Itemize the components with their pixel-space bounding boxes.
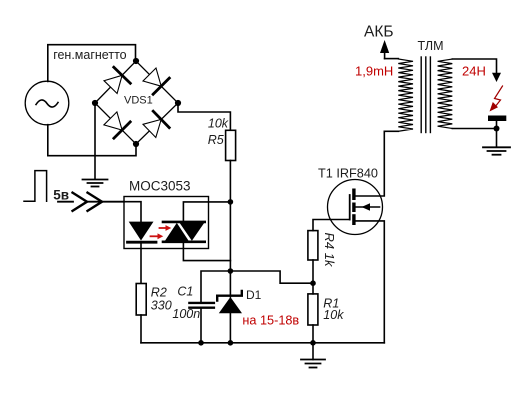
node R4/R1 xyxy=(310,280,316,286)
node C1/D1 top xyxy=(228,268,234,274)
bridge diode D_bl xyxy=(104,112,122,130)
svg-text:MOC3053: MOC3053 xyxy=(129,179,191,194)
wire bridge left node to ground xyxy=(94,103,96,179)
svg-text:АКБ: АКБ xyxy=(364,23,394,40)
svg-text:VDS1: VDS1 xyxy=(124,95,153,107)
channel bars xyxy=(352,189,355,226)
wire AKB to primary top xyxy=(385,58,399,60)
ground spark xyxy=(496,129,498,148)
ground under bridge xyxy=(83,180,108,187)
drain wire xyxy=(356,131,385,196)
svg-text:10k: 10k xyxy=(208,117,229,131)
svg-text:на 15-18в: на 15-18в xyxy=(242,314,299,328)
node bridge right xyxy=(175,100,181,106)
triac right triangle (down) xyxy=(180,223,205,241)
secondary winding L2 24H xyxy=(438,59,453,129)
ground main xyxy=(312,343,314,360)
node rail R1 xyxy=(310,340,316,346)
AKB arrow up xyxy=(384,48,386,59)
svg-text:10k: 10k xyxy=(323,308,344,322)
body arrow xyxy=(356,206,380,208)
red arrow 1 xyxy=(151,233,164,239)
wire secondary top to spark xyxy=(452,59,496,73)
wire AC top to bridge top xyxy=(48,45,136,82)
gate bar xyxy=(349,195,351,220)
svg-text:R4 1k: R4 1k xyxy=(322,233,337,268)
source wire xyxy=(356,221,385,343)
core xyxy=(421,57,430,133)
resistor R5 xyxy=(226,130,236,160)
ground rail wire xyxy=(141,342,384,344)
zener diode D1 xyxy=(229,271,231,297)
svg-text:ТЛМ: ТЛМ xyxy=(418,39,444,53)
wire R5 bottom down xyxy=(229,161,231,272)
spark arrow down xyxy=(492,73,501,82)
spark lightning red xyxy=(490,86,503,112)
svg-text:330: 330 xyxy=(151,298,172,312)
pulse symbol xyxy=(24,171,47,202)
wire primary bottom to drain xyxy=(384,130,398,132)
svg-text:1,9mH: 1,9mH xyxy=(355,64,393,79)
wire triac MT1 down right xyxy=(183,242,230,261)
node bridge top xyxy=(133,58,139,64)
resistor R4 xyxy=(308,231,318,260)
triac of optocoupler: top bar xyxy=(163,221,205,224)
wire triac MT2 to node xyxy=(183,202,230,222)
svg-text:ген.магнетто: ген.магнетто xyxy=(53,48,126,62)
wire LED anode xyxy=(124,202,141,222)
wire C1 bottom to rail xyxy=(200,309,202,343)
node R5/triac xyxy=(228,199,234,205)
resistor R2 xyxy=(136,284,146,316)
svg-text:5в: 5в xyxy=(53,188,69,203)
bridge diode D_br xyxy=(143,119,161,137)
node rail D1 xyxy=(228,340,234,346)
capacitor C1 xyxy=(189,302,214,304)
wire AC bottom to bridge bottom xyxy=(48,125,136,156)
chevron arrows xyxy=(72,192,88,212)
optocoupler U1 MOC3053 box xyxy=(124,197,209,249)
wire node to C1 xyxy=(201,271,230,302)
svg-text:100n: 100n xyxy=(172,307,200,321)
spark electrode bar xyxy=(488,116,506,122)
svg-text:24Н: 24Н xyxy=(462,64,486,79)
resistor R1 xyxy=(308,294,318,325)
AC source G1 (generator magneto) xyxy=(25,81,69,125)
node spark xyxy=(494,126,500,132)
svg-text:T1 IRF840: T1 IRF840 xyxy=(318,166,378,180)
primary winding L1 1.9mH xyxy=(398,59,413,131)
wire node to R4/R1 junction xyxy=(230,271,313,283)
node bridge bottom xyxy=(133,141,139,147)
bridge rectifier VDS1 frame xyxy=(95,61,178,144)
svg-text:C1: C1 xyxy=(177,284,193,298)
LED of optocoupler xyxy=(129,222,154,241)
svg-text:R5: R5 xyxy=(208,133,224,147)
triac left triangle (up) xyxy=(165,223,189,241)
wire R1 bottom to rail xyxy=(312,325,314,343)
bridge diode D_tr xyxy=(143,68,161,86)
node bridge left xyxy=(92,100,98,106)
wire pulse to MOC xyxy=(58,201,73,203)
svg-text:D1: D1 xyxy=(246,288,262,302)
wire R4 to node xyxy=(312,260,314,283)
bridge diode D_tl xyxy=(104,75,122,93)
node rail C1 xyxy=(198,340,204,346)
gate wire to R4 xyxy=(313,220,350,231)
wire LED cathode down to R2 xyxy=(140,244,142,284)
wire bridge right node to R5 xyxy=(178,103,230,130)
red arrow 2 xyxy=(160,225,172,231)
wire R2 bottom to rail xyxy=(140,315,142,343)
triac bottom bar xyxy=(163,241,205,244)
wire secondary bottom xyxy=(452,128,496,130)
